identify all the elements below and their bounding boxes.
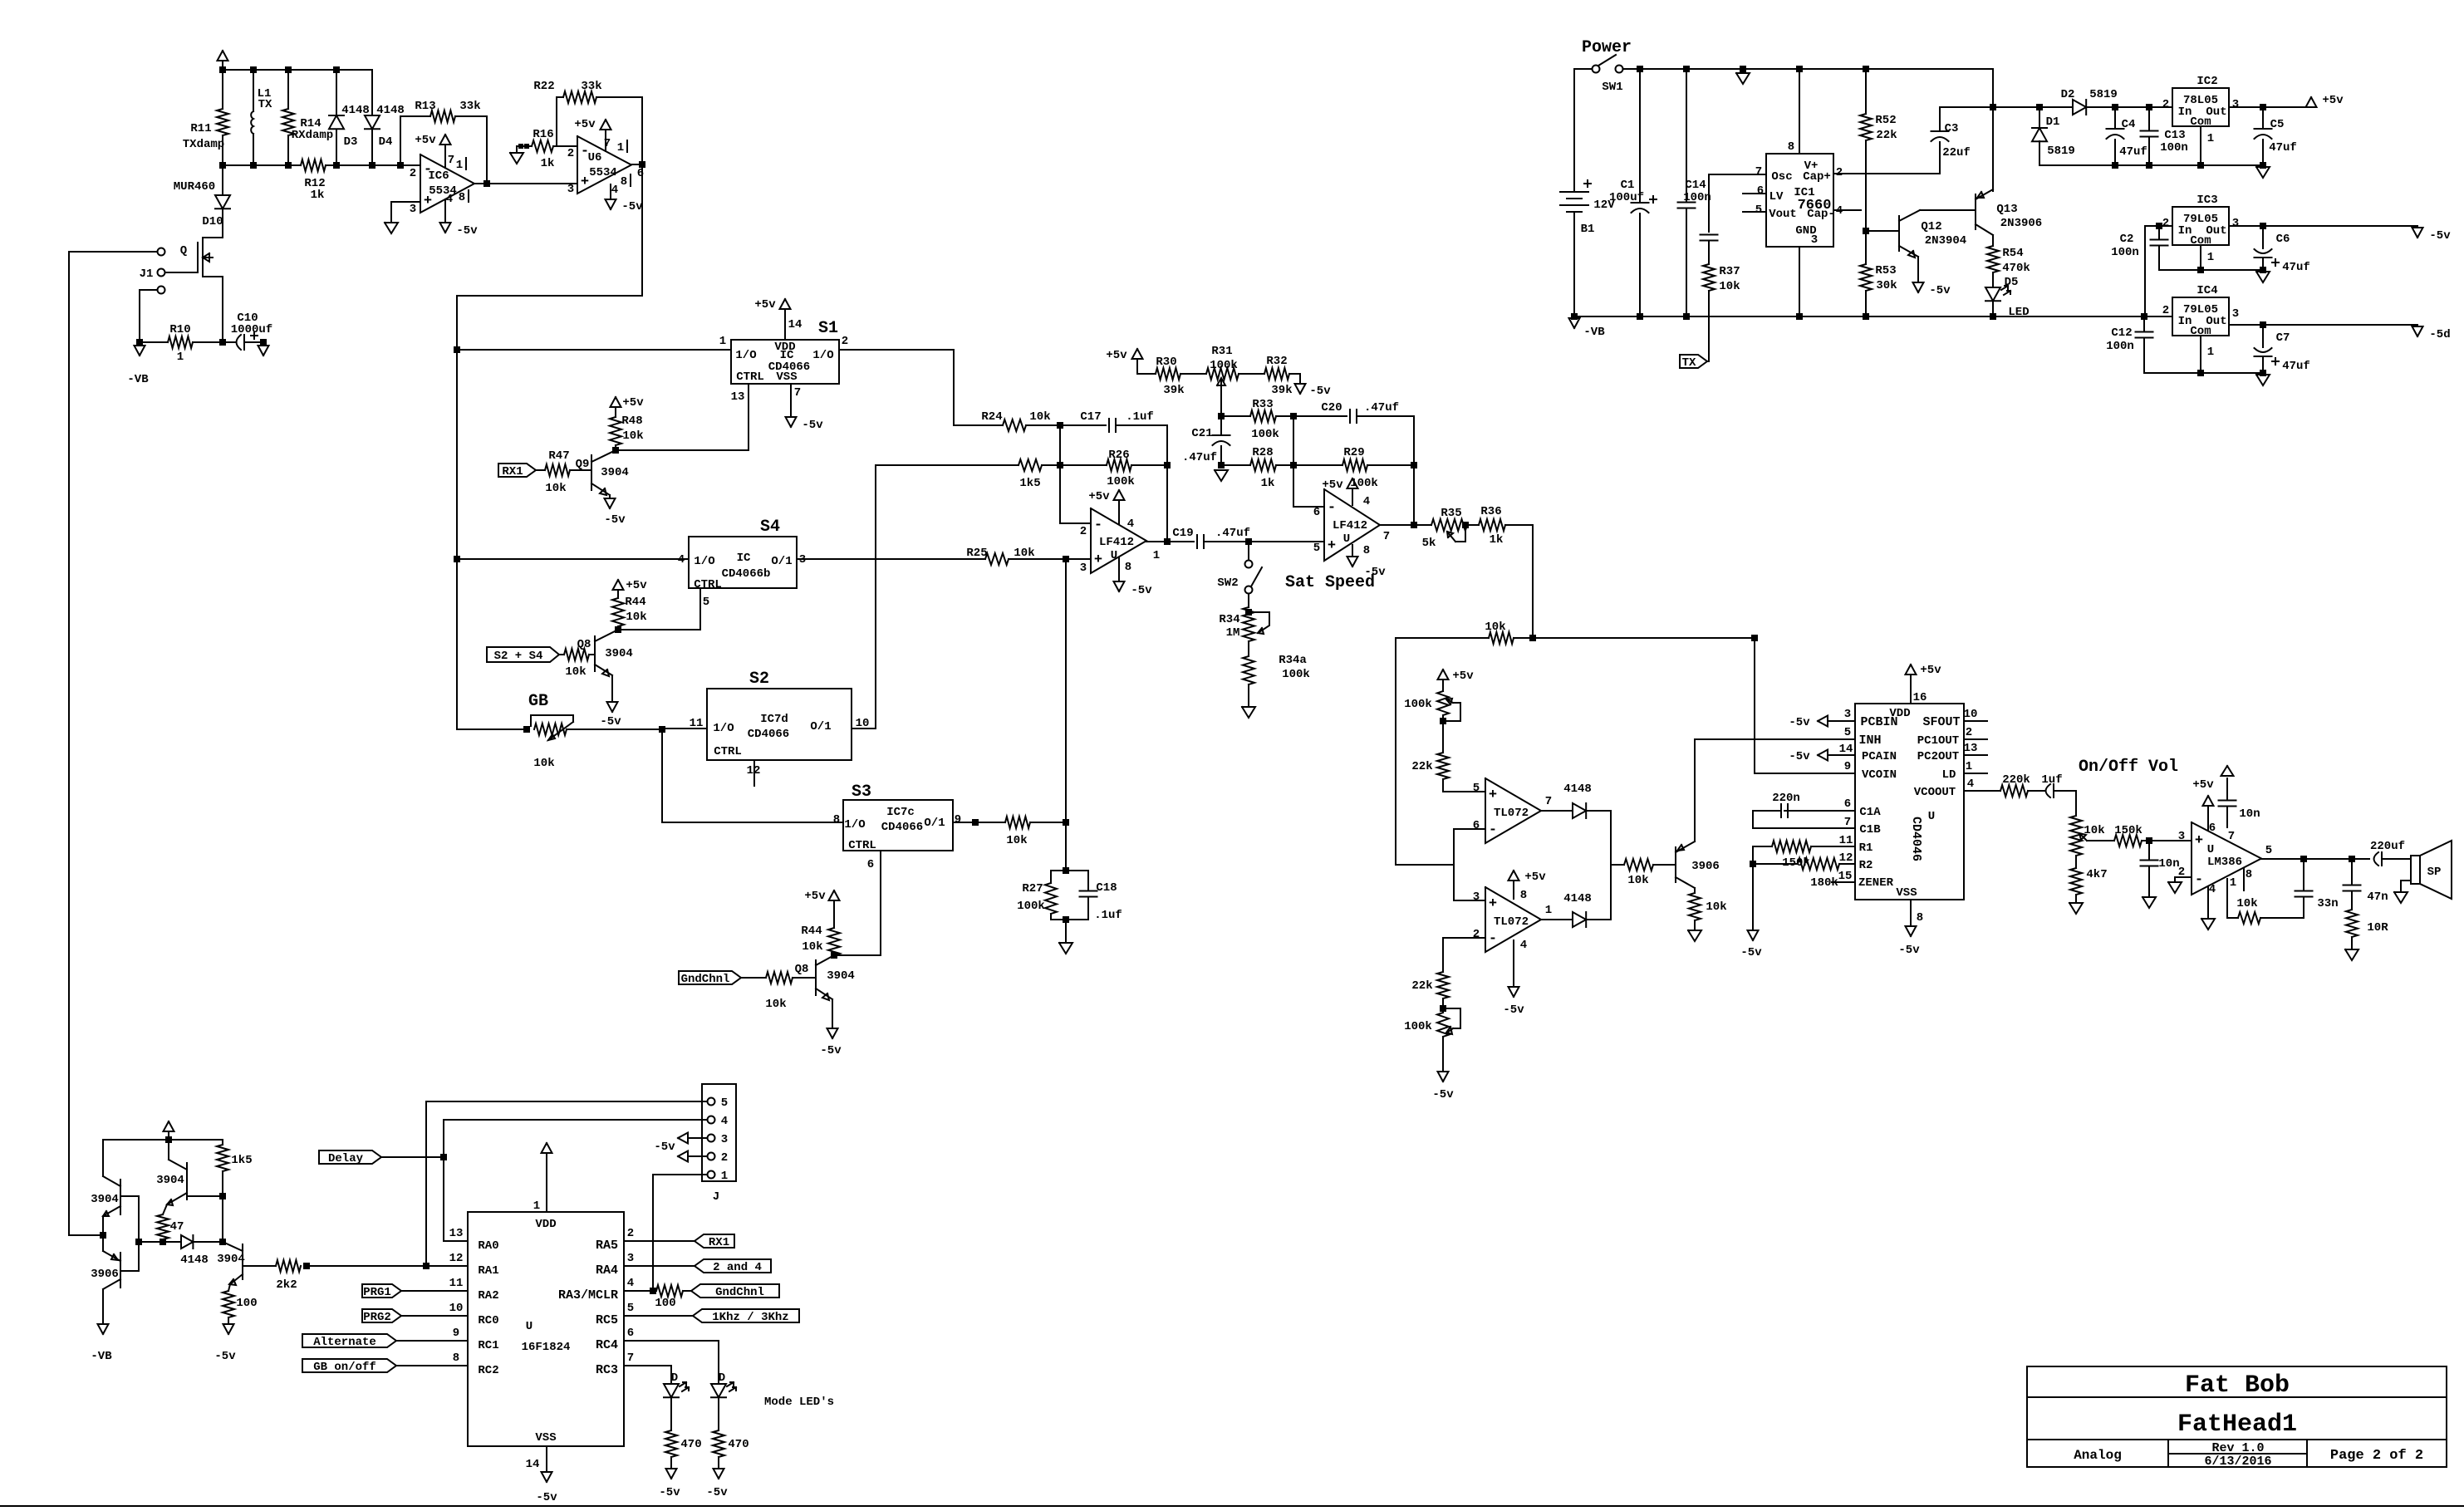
svg-text:C1: C1 <box>1621 179 1635 192</box>
wire LF412b -5v stem <box>1352 545 1353 557</box>
label 4148 cluster <box>180 1253 209 1267</box>
svg-text:Q13: Q13 <box>1996 203 2017 216</box>
wire diode right lead <box>194 1241 223 1243</box>
wire 1k5 bottom <box>222 1171 223 1196</box>
wire column S3 to LF412 <box>1065 559 1067 822</box>
svg-text:4: 4 <box>1520 939 1527 952</box>
pin 1 tick U6 <box>617 140 627 155</box>
text CD4046 VDD <box>1889 707 1910 720</box>
connector J1 <box>158 248 165 294</box>
label 3904 middle <box>156 1174 184 1187</box>
svg-text:470: 470 <box>680 1438 701 1451</box>
+5v arrow U6 <box>601 120 611 130</box>
ground C21 <box>1215 470 1228 481</box>
label C21 <box>1191 427 1212 440</box>
label -5v Q8 <box>600 715 621 729</box>
junction dot cluster top <box>165 1136 172 1143</box>
svg-text:13: 13 <box>449 1227 464 1240</box>
-5v arrow 100k lower <box>1438 1072 1449 1082</box>
junction dot C21 bottom <box>1218 462 1225 469</box>
text S1 IC <box>780 349 794 362</box>
-5v arrow LED 808 <box>666 1469 677 1479</box>
analog switch S1 CD4066 <box>731 340 839 384</box>
label On/Off Vol <box>2079 758 2178 777</box>
svg-text:R36: R36 <box>1480 505 1501 518</box>
+5v arrow LM386 pin7 <box>2221 766 2234 776</box>
svg-text:2: 2 <box>842 335 848 348</box>
label R24 <box>981 410 1002 424</box>
wire S2 pin10 <box>852 465 876 729</box>
title Analog <box>2074 1448 2122 1463</box>
text PCAIN <box>1862 750 1897 763</box>
wire R34 to R34a <box>1248 641 1249 656</box>
svg-text:11: 11 <box>1839 834 1853 847</box>
wire S2 pin11 <box>662 728 707 729</box>
+5v arrow LM386 pin6 <box>2203 796 2214 806</box>
svg-text:RC4: RC4 <box>596 1338 618 1352</box>
+5v arrow TL072 <box>1509 871 1519 881</box>
wire VCOIN <box>1755 638 1855 773</box>
wire R28 right <box>1276 464 1293 466</box>
label -5v LED 865 <box>706 1486 728 1499</box>
svg-text:ZENER: ZENER <box>1858 876 1894 890</box>
svg-text:-5v: -5v <box>654 1141 675 1154</box>
svg-text:5: 5 <box>1844 726 1851 739</box>
-5v arrow PCAIN <box>1789 750 1828 764</box>
svg-text:S3: S3 <box>852 782 871 802</box>
text S2 O/1 <box>810 720 831 733</box>
svg-text:1k5: 1k5 <box>231 1154 252 1167</box>
svg-text:22k: 22k <box>1411 760 1432 773</box>
label -5v Q12 <box>1929 284 1951 297</box>
svg-text:1000uf: 1000uf <box>231 323 272 336</box>
capacitor 33n <box>2295 891 2313 897</box>
label C7 47uf <box>2282 360 2310 373</box>
label D1 <box>2046 115 2060 129</box>
svg-text:7: 7 <box>1383 530 1390 543</box>
svg-text:3906: 3906 <box>1691 860 1720 873</box>
svg-text:10k: 10k <box>545 482 566 495</box>
label Q13 <box>1996 203 2017 216</box>
svg-text:-5v: -5v <box>1131 584 1152 597</box>
wire PIC VDD stem <box>546 1153 547 1212</box>
svg-text:RC3: RC3 <box>596 1363 618 1377</box>
ground rail3 <box>2256 375 2270 385</box>
-5v arrow LF412a <box>1114 581 1125 591</box>
wire R24 to C17 <box>1026 424 1106 426</box>
wire TL072a out <box>1541 810 1573 812</box>
resistor 220k <box>2000 785 2028 797</box>
label R12 <box>304 177 325 190</box>
resistor R24 <box>1003 419 1026 431</box>
junction dot row560 right <box>1164 462 1171 469</box>
capacitor C19 <box>1197 535 1204 548</box>
wire 1uf to pot <box>2054 791 2076 816</box>
wire C2 bottom leg <box>2159 246 2201 270</box>
text C1B <box>1859 823 1881 836</box>
wire RA1 row <box>307 1265 468 1267</box>
wire C21 bottom leg <box>1220 446 1222 465</box>
wire 1k5 to R26 <box>1042 464 1107 466</box>
svg-text:R13: R13 <box>415 100 435 113</box>
svg-text:CD4066: CD4066 <box>748 728 789 741</box>
label Q9 <box>576 458 590 471</box>
resistor R53 <box>1860 264 1872 291</box>
svg-text:+5v: +5v <box>804 890 826 903</box>
label Q12 <box>1921 220 1941 233</box>
resistor R48 <box>610 417 621 445</box>
label U6 pin6 <box>637 167 644 180</box>
label TL072a pin7 <box>1545 795 1552 808</box>
text S1 VDD <box>774 341 795 354</box>
label R48 10k <box>622 429 643 443</box>
svg-text:8: 8 <box>453 1352 459 1365</box>
label R25 <box>966 547 987 560</box>
svg-text:LED: LED <box>2008 306 2029 319</box>
resistor R14 <box>282 109 294 135</box>
label C19 <box>1172 527 1193 540</box>
label -5v IC6 <box>456 224 478 238</box>
transistor 3906 <box>1676 841 1695 888</box>
wire IC4 com stem <box>2200 336 2201 373</box>
label Q13 2N3906 <box>2000 217 2042 230</box>
wire R27 bottom leg <box>1050 914 1052 920</box>
junction dot IC6 out <box>483 180 490 187</box>
wire C1 top stem <box>1639 69 1641 202</box>
wire 47n stem <box>2351 859 2353 885</box>
svg-text:5: 5 <box>721 1096 728 1110</box>
svg-text:IC7c: IC7c <box>886 806 915 819</box>
svg-text:5819: 5819 <box>2089 88 2118 101</box>
label -VB cluster <box>91 1350 112 1363</box>
svg-text:8: 8 <box>1363 544 1370 557</box>
svg-text:9: 9 <box>955 813 961 827</box>
flag RX1 <box>498 464 536 478</box>
junction dot C5 <box>2260 104 2266 110</box>
label D2 <box>2061 88 2075 101</box>
junction dot LM386 in <box>2146 837 2152 844</box>
label -5v TL072 <box>1503 1003 1524 1017</box>
wire Q9 emitter stem <box>609 495 611 498</box>
inductor L1 <box>251 111 253 134</box>
svg-text:8: 8 <box>1125 561 1131 574</box>
label R31 100k <box>1210 359 1238 372</box>
svg-text:2: 2 <box>2162 304 2169 317</box>
junction dot S column top <box>454 346 460 353</box>
svg-text:2: 2 <box>627 1227 634 1240</box>
text IC1 Vout <box>1769 208 1797 221</box>
label R37 <box>1719 265 1740 278</box>
svg-text:C1B: C1B <box>1859 823 1881 836</box>
label S4 pin4 <box>678 553 685 567</box>
junction dot wiper node <box>1218 413 1225 419</box>
wire Q13 collector <box>1992 235 1994 246</box>
wire C13 top leg <box>2148 107 2150 130</box>
potentiometer R34 1M <box>1243 607 1254 641</box>
label S2 pin10 <box>856 717 870 730</box>
svg-text:R34a: R34a <box>1279 654 1307 667</box>
svg-text:2: 2 <box>1080 525 1087 538</box>
junction dots mid bus <box>219 162 404 169</box>
text S2 IC7d <box>760 713 788 726</box>
svg-text:6: 6 <box>627 1327 634 1340</box>
label CD4046 pin7 <box>1844 816 1851 829</box>
label R10 1 <box>177 351 184 364</box>
label TL072a pin6 <box>1473 819 1480 832</box>
label D5 <box>2005 276 2019 289</box>
transistor 3904 upper-left <box>103 1176 120 1216</box>
wire S1 pin13 stem <box>748 384 749 450</box>
svg-text:8: 8 <box>1520 889 1527 902</box>
svg-text:5819: 5819 <box>2047 145 2075 158</box>
svg-text:-5v: -5v <box>659 1486 680 1499</box>
page bottom border <box>0 1505 2464 1507</box>
text IC1 GND <box>1795 224 1816 238</box>
svg-text:1: 1 <box>2207 346 2214 359</box>
label CD4046 pin12 <box>1839 851 1853 865</box>
svg-text:+: + <box>1489 787 1497 803</box>
resistor R26 <box>1107 459 1131 471</box>
svg-text:D10: D10 <box>202 215 223 228</box>
junction dot 22k-100k <box>1440 1005 1446 1012</box>
label -5v LF412b <box>1364 566 1386 579</box>
label R26 <box>1108 449 1129 462</box>
svg-text:.1uf: .1uf <box>1126 410 1154 424</box>
svg-text:-5v: -5v <box>1789 750 1810 763</box>
wire D2 cathode <box>2086 106 2172 108</box>
wire GB left <box>457 729 527 730</box>
transistor Q8b 3904 <box>816 955 834 1000</box>
wire R29 left <box>1293 464 1342 466</box>
flag GndChnl <box>679 971 741 986</box>
capacitor osc <box>1701 235 1718 241</box>
label +5v LF412a <box>1088 490 1110 503</box>
svg-text:100n: 100n <box>2106 340 2134 353</box>
wire D10 top <box>222 165 223 195</box>
wiper 100k lower <box>1443 1008 1460 1034</box>
label IC1 pin7 <box>1755 165 1762 179</box>
label IC4 com 1 <box>2207 346 2214 359</box>
resistor R52 <box>1860 114 1872 140</box>
svg-text:10k: 10k <box>1719 280 1740 293</box>
svg-text:5k: 5k <box>1422 537 1436 550</box>
text S4 1/O <box>694 555 714 568</box>
label LM386 pin7 <box>2228 830 2235 843</box>
wiper 100k upper <box>1443 699 1460 721</box>
label CD4046 pin15 <box>1838 870 1853 883</box>
wire x1750 column <box>1453 829 1455 900</box>
svg-text:100k: 100k <box>1282 668 1310 681</box>
wire R30 stem <box>1137 359 1156 374</box>
svg-text:100n: 100n <box>1683 191 1711 204</box>
svg-text:GB: GB <box>528 692 548 711</box>
label C20 <box>1321 401 1342 415</box>
label LED <box>2008 306 2029 319</box>
svg-text:2: 2 <box>410 167 416 180</box>
svg-text:U: U <box>1111 549 1117 562</box>
text IC1 7660 <box>1798 198 1832 213</box>
label IC2 pin2 <box>2162 98 2169 111</box>
text PIC VSS <box>535 1431 556 1445</box>
svg-text:C13: C13 <box>2164 129 2185 142</box>
svg-text:-5v: -5v <box>600 715 621 729</box>
text PIC RC5 <box>596 1313 618 1327</box>
label Q <box>180 244 187 258</box>
junction dot GB left <box>523 726 530 733</box>
text VCOIN <box>1862 768 1897 782</box>
label PIC pin2 <box>627 1227 634 1240</box>
wire column S3 down <box>1065 822 1067 871</box>
wire LM386 pin7 stem <box>2226 807 2228 827</box>
wire 220uf to speaker <box>2382 858 2411 860</box>
wire R16 gnd stem <box>516 146 518 153</box>
svg-text:5: 5 <box>627 1302 634 1315</box>
label CD4046 pin5 <box>1844 726 1851 739</box>
-VB arrow cluster <box>98 1324 109 1334</box>
junction dot Delay <box>440 1154 447 1160</box>
label D3 4148 <box>341 104 370 117</box>
wire R47 to Q9 <box>570 469 591 471</box>
svg-text:3: 3 <box>627 1252 634 1265</box>
label Q9 3904 <box>601 466 629 479</box>
text IC4 79L05 <box>2183 303 2218 316</box>
label -VB left <box>127 373 149 386</box>
wire fb column x1276 <box>1060 425 1091 523</box>
svg-text:10: 10 <box>449 1302 464 1315</box>
junction dot S3 out <box>972 819 979 826</box>
resistor Q8b base 10k <box>766 972 793 984</box>
label C4 47uf <box>2119 145 2147 159</box>
label 150k vol <box>2114 824 2143 837</box>
label PIC pin11 <box>449 1277 464 1290</box>
wire 22k lower to 100k <box>1442 998 1444 1013</box>
label R32 <box>1266 355 1287 368</box>
label R25 10k <box>1014 547 1034 560</box>
-5v arrow cluster <box>223 1324 234 1334</box>
svg-text:C19: C19 <box>1172 527 1193 540</box>
diode D3 <box>329 115 344 129</box>
svg-text:1uf: 1uf <box>2041 773 2062 787</box>
svg-text:3: 3 <box>567 183 574 196</box>
label +5v out <box>2322 94 2344 107</box>
svg-text:GB on/off: GB on/off <box>313 1361 376 1374</box>
wire Q12 emitter stem <box>1917 257 1919 282</box>
label PIC pin6 <box>627 1327 634 1340</box>
wire C20 right <box>1357 416 1414 465</box>
label IC1 pin8 <box>1788 140 1794 154</box>
label S1 <box>818 319 838 338</box>
wire 3906ll emitter <box>102 1235 104 1251</box>
resistor R32 <box>1264 368 1289 380</box>
-5v arrow TL072 <box>1509 987 1519 997</box>
wire S2 pin12 stub <box>753 760 755 786</box>
label 12V <box>1593 199 1615 212</box>
junction dots C4 C13 <box>2112 104 2152 110</box>
resistor 22k lower <box>1437 972 1449 998</box>
label R16 <box>533 128 553 141</box>
potentiometer R31 100k <box>1206 368 1239 380</box>
label 4148 upper <box>1563 782 1592 796</box>
svg-text:7: 7 <box>448 154 454 167</box>
title date <box>2204 1455 2271 1469</box>
svg-text:R25: R25 <box>966 547 987 560</box>
svg-text:Delay: Delay <box>328 1152 364 1165</box>
svg-text:R27: R27 <box>1022 882 1043 895</box>
transistor Q8 3904 <box>595 630 618 676</box>
wire C1A loop <box>1753 811 1855 828</box>
svg-text:C5: C5 <box>2270 118 2285 131</box>
label 150k R1 <box>1782 856 1810 870</box>
text S4 IC <box>737 552 751 565</box>
svg-text:R53: R53 <box>1875 264 1896 277</box>
label R48 <box>621 415 642 428</box>
label C21 .47uf <box>1182 451 1217 464</box>
wire diode column <box>1610 811 1612 920</box>
wire L1 bottom <box>253 134 254 165</box>
svg-text:RXdamp: RXdamp <box>292 129 333 142</box>
text IC2 Com <box>2190 115 2211 129</box>
svg-text:-: - <box>1489 822 1497 838</box>
svg-text:R48: R48 <box>621 415 642 428</box>
svg-text:3: 3 <box>2232 307 2239 321</box>
ground R16 <box>510 153 523 164</box>
wire IC1 pin8 stem <box>1799 69 1800 154</box>
resistor R36 <box>1479 519 1505 531</box>
label U6 pin3 <box>567 183 574 196</box>
label IC3 pin3 <box>2232 217 2239 230</box>
diode D4 <box>365 115 380 129</box>
ground LM386 pin2 <box>2168 882 2182 893</box>
label GB <box>528 692 548 711</box>
label D4 4148 <box>376 104 405 117</box>
svg-text:8: 8 <box>1917 911 1923 925</box>
label +5v CD4046 <box>1920 664 1941 677</box>
svg-text:7: 7 <box>627 1352 634 1365</box>
label PIC pin10 <box>449 1302 464 1315</box>
text S3 CD4066 <box>881 821 923 834</box>
label PIC pin13 <box>449 1227 464 1240</box>
flag GndChnl dest <box>691 1284 779 1299</box>
wire RA1 to J pin5 <box>426 1101 706 1266</box>
text S1 CD4066 <box>768 361 810 374</box>
wire R1R2 column <box>1752 846 1754 864</box>
label IC1 pin2 <box>1836 166 1843 179</box>
svg-text:S1: S1 <box>818 319 838 338</box>
label SW1 <box>1602 81 1622 94</box>
wire 3904ul collector <box>102 1140 104 1176</box>
label TXdamp <box>183 138 224 151</box>
IC CD4046 <box>1855 704 1964 900</box>
wire 150k to LM386 <box>2142 840 2192 841</box>
junction dots rail2 <box>2197 267 2266 273</box>
text PC1OUT <box>1917 734 1959 748</box>
label 47n <box>2367 890 2388 904</box>
label B1 <box>1581 223 1595 236</box>
svg-text:470k: 470k <box>2002 262 2030 275</box>
label R35 5k <box>1422 537 1436 550</box>
label LF412b pin7 <box>1383 530 1390 543</box>
label C6 47uf <box>2282 261 2310 274</box>
label R11 <box>190 122 211 135</box>
svg-text:3904: 3904 <box>827 969 855 983</box>
svg-text:-5d: -5d <box>2429 328 2450 341</box>
svg-text:7: 7 <box>1545 795 1552 808</box>
svg-text:VSS: VSS <box>776 370 797 384</box>
label J <box>713 1190 719 1204</box>
label IC6 pin3 <box>410 203 416 216</box>
junction dots bottom bus <box>1637 313 2147 320</box>
label R54 <box>2002 247 2023 260</box>
